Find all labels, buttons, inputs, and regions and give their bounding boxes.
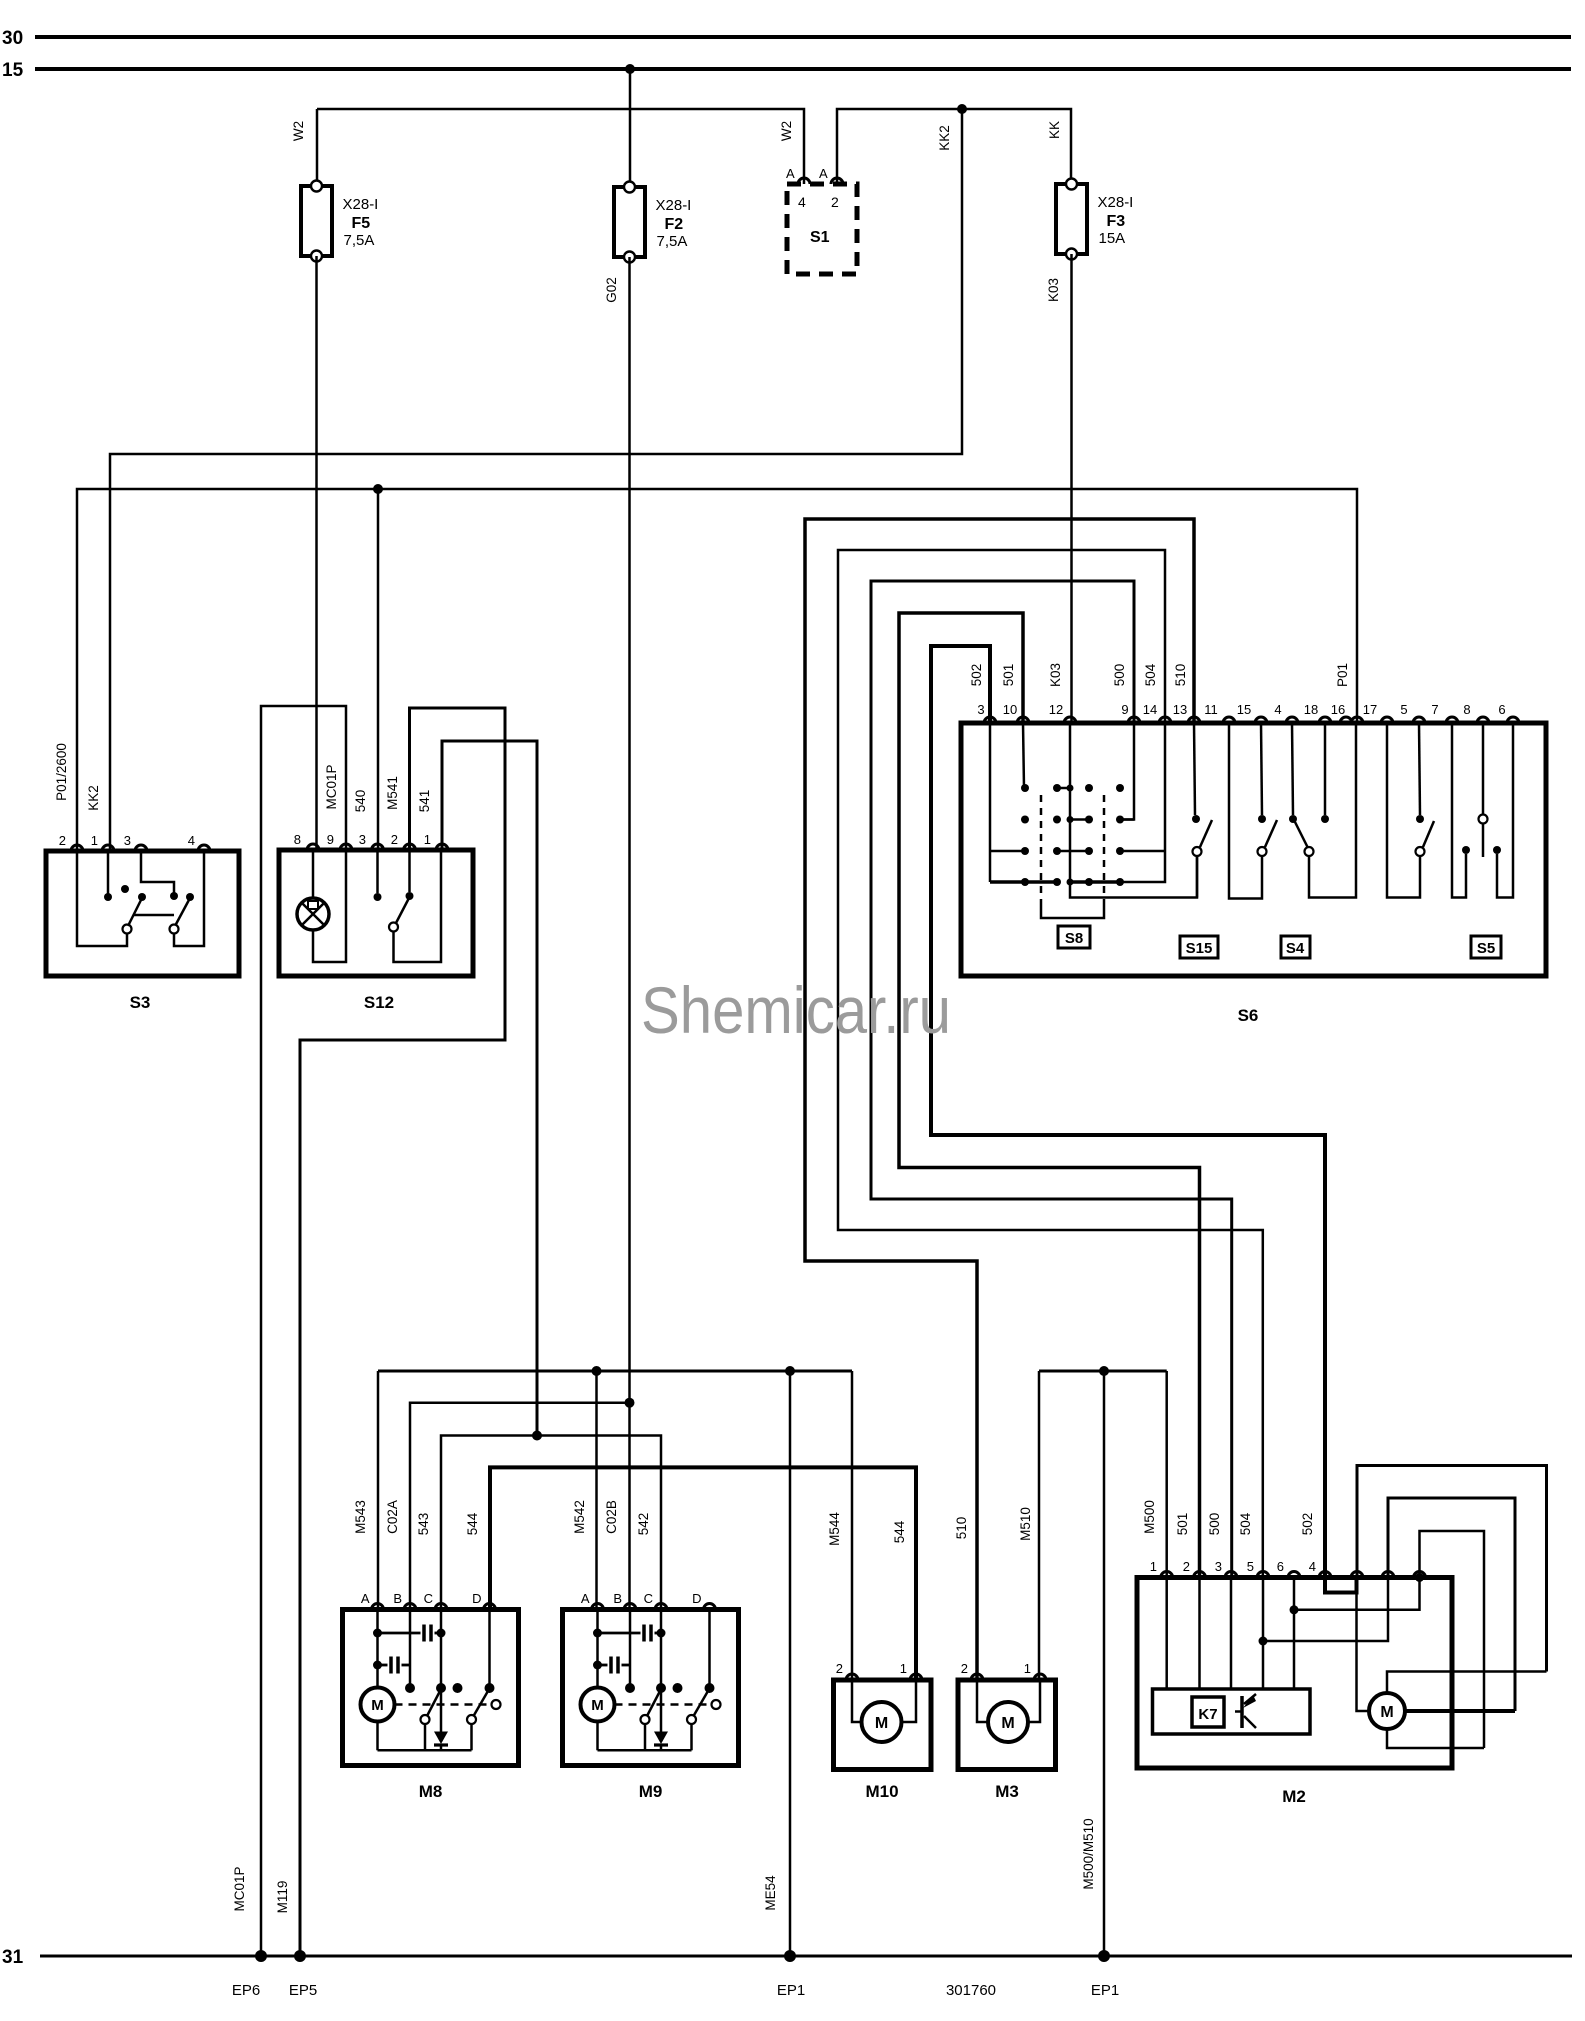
M2 pin4 jumper [1325,1578,1357,1593]
S3 left switch arm [128,898,142,926]
svg-text:K7: K7 [1198,1706,1217,1723]
svg-text:S12: S12 [364,993,394,1012]
svg-text:5: 5 [1400,702,1407,717]
svg-text:A: A [361,1591,370,1606]
fuse F3 X28-I 15A [1056,184,1087,254]
svg-text:5: 5 [1247,1559,1254,1574]
fuse F2 X28-I 7,5A [614,187,645,257]
svg-text:P01/2600: P01/2600 [54,743,69,801]
svg-text:M: M [1001,1715,1014,1732]
svg-text:P01: P01 [1335,663,1350,687]
M2 pin3 to K7 [1230,1578,1233,1690]
svg-text:B: B [393,1591,402,1606]
capacitor C-A link in M8 [378,1632,421,1635]
M9 pin C rail [660,1610,663,1732]
transistor in K7 [1240,1696,1244,1728]
pump motor M3 [958,1680,1056,1770]
capacitor B-A link in M8 [378,1664,388,1667]
wire motor ground line left [378,1370,852,1373]
S4 label box [1281,936,1310,958]
M2 outer loop pin7 to motor top [1357,1466,1547,1672]
wire bus 31 (ground) [40,1955,1572,1958]
svg-text:W2: W2 [291,121,306,141]
svg-text:MC01P: MC01P [324,764,339,809]
svg-text:9: 9 [327,832,334,847]
svg-text:14: 14 [1143,702,1157,717]
ground EP5 [294,1950,306,1962]
M8 bottom rail [378,1749,472,1752]
svg-text:C02A: C02A [385,1500,400,1534]
M2 pin9 terminal dot [1415,1573,1424,1582]
svg-text:S15: S15 [1186,940,1213,957]
svg-text:510: 510 [1173,664,1188,687]
svg-text:M119: M119 [275,1881,290,1914]
connector S1 (ignition switch) [787,184,857,274]
svg-text:M9: M9 [639,1782,663,1801]
wire M541 S12 pin2 loop to EP5 [300,708,505,1956]
M9 bottom rail [598,1749,692,1752]
junction KK2 on S1-F3 header [957,104,967,114]
svg-text:500: 500 [1112,664,1127,687]
S12 pin3 fixed contact [376,850,379,893]
S3 left pivot circle [123,925,132,934]
S3 internal pin4 loop to right pivot [174,851,204,946]
S15 fixed contact from pin13 [1194,723,1195,815]
M2 motor bottom lead [1387,1729,1484,1748]
S3 right switch arm [175,898,190,926]
wire 544 M8 pinD to M10 pin1 [490,1467,916,1680]
svg-text:M8: M8 [419,1782,443,1801]
wire C02 feed from G02 junction [625,1398,635,1408]
S8 row links [1057,787,1070,790]
S8 coupling bracket [1041,905,1104,918]
S4 pin18 contact [1324,723,1327,815]
S12 pivot loop to pin1 [394,850,442,962]
pins of M9 [592,1604,604,1610]
svg-text:2: 2 [391,832,398,847]
S15 pivot stem to common [1196,856,1199,898]
M9 centre contact [673,1683,683,1693]
M9 park switch left [641,1715,650,1724]
switch assembly S6 [961,723,1546,976]
svg-text:15: 15 [1237,702,1251,717]
svg-text:S8: S8 [1065,930,1083,947]
svg-text:4: 4 [798,194,806,210]
wire G02 from F2 down to M9 pin B [628,257,631,1610]
svg-text:K03: K03 [1046,278,1061,302]
svg-text:3: 3 [977,702,984,717]
diode in M8 [434,1732,448,1745]
diode in M9 [654,1732,668,1745]
fuse F5 X28-I 7,5A [301,186,332,256]
wire S1 pin2 header to F3 [837,109,1071,184]
svg-text:1: 1 [1024,1661,1031,1676]
svg-text:F2: F2 [665,216,684,233]
wire 510 S6 pin13 to M3 pin2 [805,519,1194,1680]
S3 internal pin2 loop to left contact [77,851,127,946]
svg-text:X28-I: X28-I [343,196,379,213]
M9 pin B rail [629,1610,632,1689]
svg-text:F3: F3 [1107,213,1126,230]
S4 right fixed contact from pin4 [1292,723,1293,815]
svg-text:4: 4 [1309,1559,1316,1574]
svg-text:2: 2 [961,1661,968,1676]
S5 right contact path [1497,723,1513,898]
svg-text:1: 1 [91,833,98,848]
wiper motor unit M8 [343,1610,519,1766]
M9 park switch right [687,1715,696,1724]
svg-text:18: 18 [1304,702,1318,717]
S6 pin14 internal drop [1120,723,1165,882]
svg-text:2: 2 [836,1661,843,1676]
svg-text:W2: W2 [779,121,794,141]
svg-text:7: 7 [1431,702,1438,717]
ground EP1 right [1098,1950,1110,1962]
svg-text:M500: M500 [1142,1500,1157,1534]
lamp in S12 [297,898,329,930]
wire MC01P S12 pin9 to EP6 [261,706,346,1956]
svg-text:543: 543 [416,1513,431,1536]
wire 500 S6 pin9 to M2 pin3 [871,581,1232,1578]
M9 park switch dashed link [615,1703,712,1706]
svg-text:K03: K03 [1048,663,1063,687]
M10 motor leads [852,1680,863,1722]
svg-text:M: M [371,1697,384,1714]
M8 pin B rail [409,1610,412,1689]
svg-text:13: 13 [1173,702,1187,717]
svg-text:6: 6 [1277,1559,1284,1574]
M3 motor leads [977,1680,989,1722]
svg-text:501: 501 [1001,664,1016,687]
M2 pin2 to K7 [1198,1578,1201,1690]
M8 pin C rail [440,1610,443,1732]
S3 floating contact dot [121,885,129,893]
S4 right pivot [1305,847,1314,856]
svg-text:2: 2 [1183,1559,1190,1574]
svg-text:6: 6 [1498,702,1505,717]
svg-text:X28-I: X28-I [1098,194,1134,211]
junction P01 header to S12 pin3 [373,484,383,494]
M2 pin5 link to right pin [1263,1578,1388,1642]
S4 left pivot [1258,847,1267,856]
svg-text:B: B [613,1591,622,1606]
M8 pin D rail [488,1610,491,1689]
wire 501 S6 pin10 to M2 pin2 [899,613,1200,1578]
S5 left contact path [1452,723,1466,898]
wiper motor unit M2 [1137,1578,1452,1769]
S12 switch arm [396,898,409,923]
svg-text:M: M [1380,1704,1393,1721]
svg-text:17: 17 [1363,702,1377,717]
wire 504 S6 pin14 to M2 pin5 [838,550,1263,1578]
svg-text:M3: M3 [995,1782,1019,1801]
motor M in M9 [596,1722,599,1751]
S8 label box [1058,926,1090,948]
wire 502 S6 pin3 to M2 pin4 [931,646,1325,1578]
junction on bus 15 feeding F2 [625,64,635,74]
svg-text:M: M [875,1715,888,1732]
svg-text:15A: 15A [1099,230,1126,247]
svg-text:11: 11 [1204,702,1218,717]
S3 right pivot circle [170,925,179,934]
S8 mechanical dashed links [1040,795,1043,905]
svg-text:EP1: EP1 [1091,1982,1119,1999]
pins of M8 [372,1604,384,1610]
svg-text:30: 30 [2,28,23,49]
svg-text:D: D [472,1591,481,1606]
svg-text:544: 544 [892,1520,907,1543]
M8 park switch left [421,1715,430,1724]
svg-text:10: 10 [1003,702,1017,717]
M2 motor top lead [1387,1672,1547,1694]
S5 wiper arm [1423,821,1434,847]
motor M in M3 [988,1702,1028,1742]
wiper motor unit M9 [563,1610,739,1766]
wire W2 header to S1 pin 4 [317,109,804,184]
svg-text:544: 544 [465,1512,480,1535]
wire M510 to M3 pin1 [1038,1371,1041,1680]
svg-text:A: A [581,1591,590,1606]
svg-text:8: 8 [1463,702,1470,717]
svg-text:A: A [819,166,828,181]
svg-text:KK2: KK2 [86,785,101,811]
pins of S6 [984,717,996,723]
wire F5 to S12 pin 8 [315,256,318,851]
svg-text:M543: M543 [353,1500,368,1534]
M8 park switch dashed link [395,1703,492,1706]
M2 pin1 to K7 [1165,1578,1168,1690]
pump motor M10 [834,1680,932,1770]
wire P01/2600 from S3 pin2 to S6 pin17 [77,489,1357,851]
S15 pivot [1193,847,1202,856]
svg-text:EP6: EP6 [232,1982,260,1999]
M8 park switch right [467,1715,476,1724]
S6 pin12 internal drop to S15 common [1070,723,1197,898]
svg-text:M10: M10 [865,1782,898,1801]
S5 wiper switch movable from pin5 [1387,723,1420,898]
ground EP1 left [784,1950,796,1962]
M2 pin5 junction [1259,1637,1268,1646]
capacitor C-A link in M9 [598,1632,641,1635]
svg-text:4: 4 [1274,702,1281,717]
svg-text:3: 3 [1215,1559,1222,1574]
svg-text:KK: KK [1047,121,1062,139]
svg-text:9: 9 [1121,702,1128,717]
S4 left arm [1265,820,1277,847]
S5 wiper fixed contact from pin7 [1419,723,1420,815]
M2 motor right lead [1405,1709,1515,1713]
motor M in M8 [376,1722,379,1751]
svg-text:542: 542 [636,1513,651,1536]
svg-text:540: 540 [353,790,368,813]
electronic module K7 in M2 [1153,1689,1311,1734]
wire ME54 to EP1 [789,1371,792,1956]
svg-text:510: 510 [954,1517,969,1540]
svg-text:8: 8 [294,832,301,847]
S8 contact matrix dots [1021,784,1029,792]
svg-text:C: C [424,1591,433,1606]
wire KK2 down to S3 row [110,109,962,851]
wire 540 drop to S12 pin 3 [377,489,380,851]
S4 movable feed from pin11 [1229,723,1262,899]
M8 centre contact [453,1683,463,1693]
pins of S12 [307,844,319,850]
svg-text:31: 31 [2,1947,24,1968]
capacitor B-A link in M9 [598,1664,608,1667]
svg-text:4: 4 [188,833,195,848]
pins of M2 [1161,1572,1173,1578]
svg-text:1: 1 [900,1661,907,1676]
S4 right pivot stem to pin17 [1309,723,1356,898]
S15 label box [1180,936,1218,958]
S12 pin2 fixed contact [408,850,411,892]
M2 pin6 link to right pin [1294,1578,1420,1610]
S4 fixed contact from pin15 [1261,723,1262,815]
M2 motor left feed [1357,1593,1371,1712]
svg-text:501: 501 [1175,1513,1190,1536]
svg-text:S1: S1 [810,229,830,246]
svg-text:502: 502 [969,664,984,687]
S12 pivot circle [389,923,398,932]
svg-text:1: 1 [424,832,431,847]
motor M in M2 [1369,1693,1405,1729]
switch unit S12 [279,850,473,976]
svg-text:504: 504 [1238,1512,1253,1535]
wire bus 15 [35,67,1571,71]
svg-text:Shemicar.ru: Shemicar.ru [641,973,951,1047]
M9 pin D rail [708,1610,711,1689]
S6 pin9 internal drop [1120,723,1134,820]
S3 pin1 contact [107,851,110,894]
svg-text:M: M [591,1697,604,1714]
S5 movable centre contact [1482,723,1485,815]
wire F5 drop from W2 header [316,109,319,186]
S12 lamp bottom loop to pin9 [313,850,346,962]
wire M543 to M8 pin A [377,1371,380,1610]
switch unit S3 [46,851,239,976]
svg-text:502: 502 [1300,1513,1315,1536]
junction ME54 ground [785,1366,795,1376]
svg-text:S6: S6 [1238,1006,1259,1025]
svg-text:M542: M542 [572,1500,587,1534]
svg-text:M544: M544 [827,1512,842,1546]
svg-text:A: A [786,166,795,181]
wire M500 to M2 pin1 [1165,1371,1168,1578]
svg-text:M541: M541 [385,776,400,810]
M2 pin5 to K7 [1262,1578,1265,1690]
svg-text:1: 1 [1150,1559,1157,1574]
svg-text:7,5A: 7,5A [344,232,375,249]
svg-text:2: 2 [59,833,66,848]
svg-text:M2: M2 [1282,1787,1306,1806]
svg-text:12: 12 [1049,702,1063,717]
svg-text:500: 500 [1207,1513,1222,1536]
svg-text:ME54: ME54 [763,1875,778,1911]
M2 outer loop pin8 to motor right [1388,1498,1515,1711]
wire M544 to M10 pin2 [851,1371,854,1680]
S12 lamp branch wire [312,850,315,897]
svg-text:S4: S4 [1286,940,1305,957]
svg-text:541: 541 [417,790,432,813]
ground EP6 [255,1950,267,1962]
wire bus 30 [35,35,1571,39]
S3 coupling bar [133,914,174,917]
S15 switch arm [1200,820,1212,847]
M2 pin6 to K7 [1293,1578,1296,1690]
svg-text:2: 2 [831,194,839,210]
wire motor ground line right [1039,1370,1167,1373]
svg-text:301760: 301760 [946,1982,996,1999]
svg-text:MC01P: MC01P [232,1866,247,1911]
S4 right arm closed [1295,822,1308,848]
junction M500/M510 ground [1099,1366,1109,1376]
svg-text:C: C [644,1591,653,1606]
svg-text:S3: S3 [130,993,151,1012]
wire 541 S12 pin1 to motors feed [442,741,537,1436]
S3 pin3 path to right fixed contact [141,851,174,893]
M2 pin6 junction [1290,1605,1299,1614]
M8 pin A rail [376,1610,379,1689]
svg-text:S5: S5 [1477,940,1495,957]
wire 543/542 feed from 541 [532,1431,542,1441]
junction M9A ground [592,1366,602,1376]
S5 label box [1471,936,1501,958]
wire bus15 to fuse F2 [629,69,632,187]
svg-text:3: 3 [359,832,366,847]
motor M in M10 [862,1702,902,1742]
svg-text:C02B: C02B [604,1500,619,1534]
wire K03 from F3 to S6 pin 12 [1070,254,1073,723]
svg-text:504: 504 [1143,663,1158,686]
svg-text:EP5: EP5 [289,1982,317,1999]
S5 wiper pivot [1416,847,1425,856]
svg-text:EP1: EP1 [777,1982,805,1999]
svg-text:D: D [692,1591,701,1606]
svg-text:G02: G02 [604,277,619,303]
wire M500/M510 to EP1 [1103,1371,1106,1956]
M2 outer loop pin9 to motor bottom [1420,1531,1485,1748]
S6 pin10 internal drop [1023,723,1024,788]
M9 pin A rail [596,1610,599,1689]
svg-text:F5: F5 [352,215,371,232]
svg-text:16: 16 [1331,702,1345,717]
svg-text:7,5A: 7,5A [657,233,688,250]
svg-text:M500/M510: M500/M510 [1081,1818,1096,1889]
pins of S3 [71,845,83,851]
svg-text:X28-I: X28-I [656,197,692,214]
wire M542 to M9 pin A [595,1371,598,1610]
S6 pin3 internal drop [989,723,992,882]
svg-text:3: 3 [124,833,131,848]
svg-text:KK2: KK2 [937,125,952,151]
svg-text:15: 15 [2,60,24,81]
svg-text:M510: M510 [1018,1507,1033,1541]
